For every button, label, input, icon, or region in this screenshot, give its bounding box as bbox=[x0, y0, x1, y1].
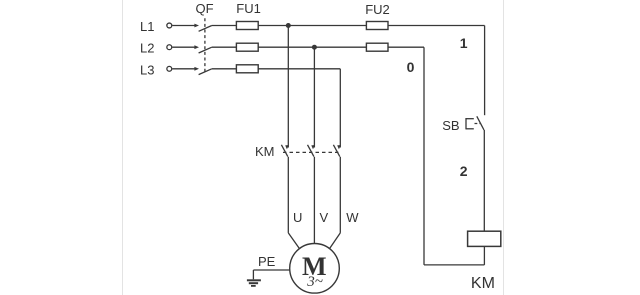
svg-text:2: 2 bbox=[460, 163, 468, 179]
svg-text:U: U bbox=[293, 210, 302, 225]
svg-text:L1: L1 bbox=[140, 19, 154, 34]
svg-text:FU2: FU2 bbox=[365, 2, 390, 17]
svg-text:QF: QF bbox=[196, 1, 214, 16]
svg-text:FU1: FU1 bbox=[236, 1, 261, 16]
svg-text:3~: 3~ bbox=[306, 274, 323, 290]
svg-text:1: 1 bbox=[460, 35, 468, 51]
svg-text:L3: L3 bbox=[140, 62, 154, 77]
svg-text:PE: PE bbox=[258, 254, 276, 269]
svg-text:W: W bbox=[346, 210, 359, 225]
svg-text:KM: KM bbox=[255, 144, 275, 159]
svg-text:SB: SB bbox=[442, 118, 459, 133]
svg-text:L2: L2 bbox=[140, 41, 154, 56]
svg-text:0: 0 bbox=[407, 59, 415, 75]
svg-text:V: V bbox=[320, 210, 329, 225]
svg-text:KM: KM bbox=[471, 275, 495, 292]
